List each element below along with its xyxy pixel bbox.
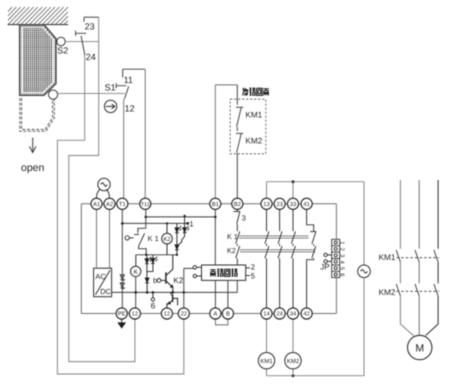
- output contact 13-14: [265, 209, 269, 308]
- svg-text:23: 23: [276, 201, 282, 208]
- svg-text:A: A: [213, 312, 217, 318]
- svg-text:b: b: [153, 276, 157, 285]
- riser T12: [145, 209, 147, 228]
- svg-text:12: 12: [132, 311, 138, 318]
- wire 41 to JP: [335, 204, 337, 240]
- terminal 24: [274, 308, 285, 319]
- svg-text:KM2: KM2: [245, 136, 262, 145]
- motor M: [408, 335, 432, 359]
- NC output contact 41-42: [307, 209, 317, 308]
- wire: supply down to bottom coil bus: [267, 278, 365, 376]
- phase line L1: [400, 180, 413, 336]
- output contact 33-34: [291, 209, 295, 308]
- svg-text:B: B: [226, 312, 230, 318]
- terminal 13: [261, 198, 272, 209]
- riser B to box: [227, 280, 229, 308]
- svg-text:M: M: [415, 343, 424, 355]
- ground PE: [121, 319, 123, 322]
- terminal T1: [117, 198, 128, 209]
- terminal B2: [232, 198, 243, 209]
- switch S1 (door monitor, contact 11-12): [116, 69, 145, 99]
- wire: S1/12 down to terminal T1: [123, 99, 125, 198]
- AC supply source (sine circle) above A1/A2: [97, 178, 111, 198]
- internal rail line1 (T12 to B1): [146, 216, 216, 218]
- terminal PE: [116, 308, 127, 319]
- relay coil K: [131, 255, 141, 277]
- open direction arrow: [29, 138, 36, 153]
- svg-text:K2: K2: [173, 276, 183, 285]
- AC/DC converter U1: [94, 268, 112, 297]
- svg-text:12: 12: [164, 311, 170, 318]
- door open position (dashed outline): [20, 98, 55, 131]
- control box outputs 2 and 5: [246, 268, 250, 276]
- svg-text:24: 24: [86, 52, 96, 62]
- contactor coil KM1: [258, 353, 274, 369]
- terminal 23: [274, 198, 285, 209]
- actuation direction symbol (circle arrow): [104, 100, 116, 112]
- terminal A2: [104, 198, 115, 209]
- svg-text:11: 11: [124, 75, 133, 85]
- svg-text:S1: S1: [105, 82, 116, 92]
- node b: [157, 279, 161, 283]
- internal rail (K1 out): [136, 254, 177, 256]
- svg-text:K 1: K 1: [148, 234, 159, 243]
- contactor KM1 main contacts: [396, 250, 439, 262]
- terminal 14: [261, 308, 272, 319]
- LED D3 (slanted): [177, 216, 189, 246]
- svg-text:A1: A1: [93, 202, 100, 208]
- svg-text:K: K: [134, 269, 139, 276]
- terminal 33: [287, 198, 298, 209]
- svg-text:AC: AC: [95, 272, 106, 281]
- svg-text:KM1: KM1: [260, 358, 273, 365]
- svg-text:JP: JP: [320, 263, 329, 272]
- transistor Q2 (below bus): [167, 292, 178, 308]
- LED D4: [145, 255, 151, 278]
- junction top bus: [292, 180, 295, 183]
- terminal B1: [210, 198, 221, 209]
- top supply bus: [267, 182, 365, 265]
- phase line L2: [418, 180, 420, 335]
- svg-text:2: 2: [251, 262, 255, 271]
- riser B1 to A terminal through box: [214, 209, 216, 308]
- svg-text:5: 5: [339, 267, 345, 270]
- svg-text:T12: T12: [141, 202, 150, 208]
- svg-text:B2: B2: [234, 201, 241, 208]
- terminal row line bottom: [81, 313, 336, 315]
- rail T1 down to PE: [121, 209, 123, 308]
- output contact 23-24: [278, 209, 282, 308]
- wire K coil to bus and terminal 12: [135, 277, 137, 308]
- terminal row line top: [81, 203, 336, 205]
- svg-text:open: open: [21, 162, 45, 174]
- jumper pins: [324, 253, 332, 263]
- terminal A: [210, 308, 221, 319]
- switch S2 (door monitor, contact 23-24): [76, 17, 99, 55]
- door roller top (at S2): [57, 37, 65, 45]
- feedback dashed box: [230, 99, 266, 154]
- svg-text:1: 1: [339, 241, 345, 244]
- contact chain K2 (double line): [240, 250, 316, 252]
- contact KM1 (NC feedback): [236, 85, 243, 131]
- terminal B: [222, 308, 233, 319]
- contactor coil KM2: [285, 353, 301, 369]
- wire terminal 22 riser to control pins: [184, 268, 193, 308]
- control box input pins a/b: [193, 266, 201, 278]
- connector JP: [332, 239, 340, 277]
- wire: mech link roller to S2: [65, 41, 99, 43]
- control circuit box (CJK): [202, 265, 246, 280]
- relay contact K1: [125, 228, 146, 255]
- svg-text:41: 41: [303, 202, 309, 208]
- JP pin numbers: [339, 241, 346, 276]
- svg-text:14: 14: [263, 312, 270, 318]
- terminal 12 mid: [161, 308, 172, 319]
- TVS suppressor on T1 rail: [120, 275, 124, 289]
- internal rail line2 (T1 to node 1): [122, 222, 187, 224]
- feedback loop label (CJK): [243, 88, 269, 96]
- terminal 41: [301, 198, 312, 209]
- svg-text:33: 33: [290, 201, 296, 208]
- terminal T12: [140, 198, 151, 209]
- wire A2 to AC/DC: [109, 209, 111, 268]
- riser B2 below box to bus: [236, 280, 238, 292]
- wire A1 to AC/DC: [96, 209, 98, 268]
- feedback loop top bar: [215, 84, 237, 86]
- svg-text:KM2: KM2: [287, 358, 300, 365]
- svg-text:2: 2: [339, 248, 346, 251]
- junction coil bus: [292, 374, 295, 377]
- svg-text:3: 3: [242, 213, 246, 222]
- door (closed, meshed panel): [20, 25, 56, 96]
- svg-text:6: 6: [339, 273, 346, 276]
- svg-text:KM1: KM1: [379, 253, 396, 262]
- feedback loop riser left (B1 up): [214, 85, 216, 198]
- svg-text:K 1: K 1: [227, 232, 238, 241]
- wire: mech link roller to S1: [58, 92, 125, 94]
- contact chain K1 (double line): [239, 236, 309, 238]
- svg-text:23: 23: [85, 22, 95, 32]
- wire: S2/24 down-left-down to terminal 22 loop: [57, 55, 183, 374]
- svg-text:22: 22: [181, 311, 187, 318]
- svg-text:24: 24: [276, 311, 283, 318]
- wire: S1/11 loop down to terminal T12: [144, 69, 146, 198]
- svg-text:1: 1: [189, 219, 193, 228]
- terminal A1: [91, 198, 102, 209]
- contactor KM2 main contacts: [396, 284, 439, 296]
- LED D1: [175, 223, 181, 244]
- AC supply source (right, sine circle): [358, 265, 371, 278]
- svg-text:KM1: KM1: [245, 111, 262, 120]
- internal bus (0V): [112, 291, 238, 293]
- svg-text:S2: S2: [57, 46, 68, 56]
- riser B2 with contact 3: [234, 209, 241, 231]
- svg-text:PE: PE: [118, 312, 126, 318]
- LED D5: [147, 255, 158, 272]
- A-B jumper loop: [215, 319, 228, 325]
- terminal 12 left: [129, 308, 140, 319]
- contact KM2 (NC feedback): [236, 133, 243, 198]
- diode D2: [175, 245, 179, 255]
- svg-text:42: 42: [303, 311, 309, 318]
- svg-text:12: 12: [125, 103, 135, 113]
- svg-text:6: 6: [151, 301, 156, 311]
- svg-text:34: 34: [290, 311, 297, 318]
- svg-text:DC: DC: [100, 287, 111, 296]
- wire 42 to JP: [335, 278, 337, 314]
- svg-text:B1: B1: [212, 202, 219, 208]
- phase line L3: [426, 180, 438, 336]
- svg-text:K2: K2: [163, 236, 170, 243]
- terminal 42: [301, 308, 312, 319]
- door roller bottom (at S1): [49, 90, 58, 99]
- svg-text:T1: T1: [119, 202, 126, 208]
- diode D6: [145, 278, 149, 293]
- svg-text:KM2: KM2: [379, 288, 396, 297]
- svg-text:K2: K2: [227, 246, 236, 255]
- terminal 34: [287, 308, 298, 319]
- svg-text:13: 13: [263, 201, 269, 208]
- transistor Q1 (K2 driver): [166, 255, 173, 293]
- svg-text:3: 3: [339, 254, 346, 257]
- svg-text:A2: A2: [106, 201, 113, 208]
- module outer box left edge: [80, 204, 82, 314]
- node 1: [186, 222, 189, 225]
- indicator K2 lamp: [162, 223, 173, 254]
- terminal 22: [178, 308, 189, 319]
- wire: S2/23 side down to terminal 12 loop: [69, 17, 135, 361]
- wire: 14 to KM1 coil: [266, 319, 268, 376]
- wire: 34 to KM2 coil: [292, 319, 294, 376]
- node 6 test point: [152, 292, 154, 297]
- wall hatch: [8, 7, 69, 25]
- output contact blades on B2 riser: [236, 231, 240, 265]
- svg-text:5: 5: [251, 272, 255, 281]
